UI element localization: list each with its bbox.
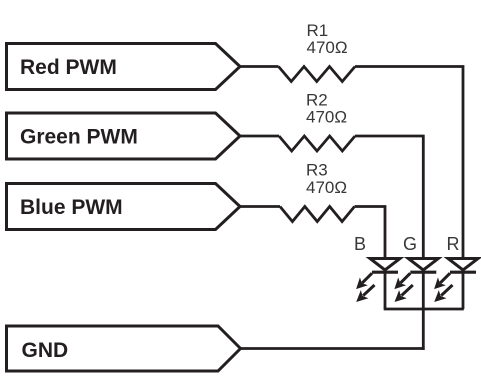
wire: bus drop to GND rail [422,309,425,350]
input flag GND [7,326,241,371]
wire: Red PWM tip to R1 [238,65,279,68]
LED D_G cathode bar [410,271,436,274]
label Green PWM [20,126,138,149]
input flag Red PWM [7,44,241,90]
svg-text:GND: GND [22,339,69,362]
LED D_B light-emission arrow 2 [352,281,378,306]
svg-text:R: R [447,234,460,254]
wire: B LED cathode stub [384,272,387,309]
LED D_G light-emission arrow 2 [391,281,417,306]
value 470Ω (R1) [307,38,348,57]
LED D_B light-emission arrow 1 [352,269,376,293]
LED D_R cathode bar [450,271,476,274]
value 470Ω (R3) [306,178,347,197]
LED D_R light-emission arrow 2 [430,281,456,306]
svg-text:Green PWM: Green PWM [20,126,138,149]
label GND [22,339,69,362]
label Blue PWM [20,196,123,219]
input flag Green PWM [7,113,241,159]
label Red PWM [20,56,117,79]
svg-text:Red PWM: Red PWM [20,56,117,79]
wire: GND flag tip to bus drop [239,347,425,350]
wire: G LED cathode stub [422,272,425,309]
wire: cathode bus [384,308,464,311]
resistor R3 [280,207,355,222]
label R2 [306,91,328,110]
svg-text:B: B [354,234,366,254]
svg-text:470Ω: 470Ω [307,38,348,57]
label R1 [307,21,329,40]
node label R [447,234,460,254]
svg-text:R3: R3 [306,161,328,180]
LED D_B cathode bar [372,271,398,274]
wire: R2 to G LED anode (right then down) [355,136,423,260]
resistor R1 [279,67,356,82]
wire: Green PWM tip to R2 [238,135,279,138]
svg-text:Blue PWM: Blue PWM [20,196,123,219]
wire: R3 to B LED anode (right then down) [355,207,386,260]
LED D_R triangle (anode top, cathode down) [448,259,478,271]
wire: R1 to R LED anode (right then down) [355,67,463,260]
resistor R2 [279,136,355,151]
LED D_B triangle (anode top, cathode down) [370,259,400,271]
LED D_R light-emission arrow 1 [430,269,454,293]
node label G [403,234,417,254]
wire: R LED cathode stub [462,272,465,309]
LED D_G light-emission arrow 1 [390,269,414,293]
LED D_G triangle (anode top, cathode down) [408,259,438,271]
node label B [354,234,366,254]
svg-text:470Ω: 470Ω [306,108,347,127]
value 470Ω (R2) [306,108,347,127]
svg-text:G: G [403,234,417,254]
wire: Blue PWM tip to R3 [238,205,280,208]
svg-text:470Ω: 470Ω [306,178,347,197]
input flag Blue PWM [7,184,241,230]
label R3 [306,161,328,180]
